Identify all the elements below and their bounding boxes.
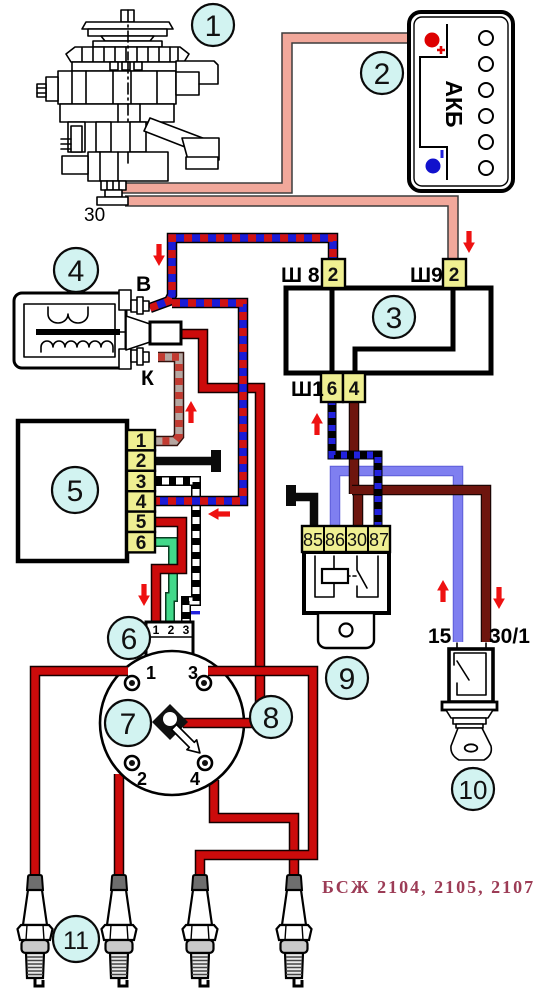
svg-text:11: 11 <box>63 927 89 955</box>
battery cell plugs <box>479 31 493 175</box>
flow arrow up below Sh1-6 <box>311 413 323 435</box>
label circle 8 <box>250 696 292 738</box>
svg-text:1: 1 <box>136 431 147 452</box>
wire blue-red: coil B to Sh8-2 <box>150 238 333 308</box>
svg-text:БСЖ 2104, 2105, 2107: БСЖ 2104, 2105, 2107 <box>322 877 535 897</box>
relay (item 9) <box>302 526 390 648</box>
flow arrow down at Sh9 pink <box>463 231 475 253</box>
wire red: commutator pin5 to connector pin1 <box>155 522 182 623</box>
label circle 1 <box>192 4 234 46</box>
svg-text:10: 10 <box>459 775 488 805</box>
ignition coil (item 4) <box>14 273 181 390</box>
wire brown: junction to ignition switch 30/1 <box>352 490 486 642</box>
svg-text:30: 30 <box>84 205 105 226</box>
svg-text:4: 4 <box>349 379 360 400</box>
wire red: distributor t3 to spark plug 3 <box>200 671 313 880</box>
svg-text:К: К <box>141 367 154 390</box>
wire red: distributor t4 to spark plug 4 <box>214 780 294 880</box>
commutator pins 1-6 <box>127 430 155 552</box>
wire black: commutator pin2 to body lug <box>155 457 212 466</box>
svg-text:8: 8 <box>263 702 280 735</box>
svg-text:Ш1: Ш1 <box>291 378 324 401</box>
svg-text:2: 2 <box>328 265 339 286</box>
svg-text:4: 4 <box>68 255 85 288</box>
svg-text:3: 3 <box>188 663 198 683</box>
distributor t3 <box>197 676 211 690</box>
svg-text:Ш 8: Ш 8 <box>281 264 320 287</box>
wire brown-grey: coil K to commutator pin1 <box>155 357 179 441</box>
generator legs <box>68 122 85 152</box>
flow arrow down at blue-red top <box>153 244 165 266</box>
svg-text:5: 5 <box>136 512 147 533</box>
generator right bracket <box>176 61 218 95</box>
svg-text:АКБ: АКБ <box>441 80 467 127</box>
distributor (item 7) <box>35 651 313 880</box>
generator diagonal brace and foot <box>144 118 208 154</box>
wire blue-red: coil B to commutator pin4 <box>155 303 243 501</box>
block internal link Sh9-2 to Sh1-4 <box>355 288 453 373</box>
coil terminal K <box>119 349 131 369</box>
svg-text:30/1: 30/1 <box>489 625 530 648</box>
wire black: relay 85 to ground lug <box>294 497 314 526</box>
block internal link Sh8-2 to Sh1-6 <box>330 288 335 373</box>
svg-text:1: 1 <box>146 663 156 683</box>
relay coil box <box>322 569 348 583</box>
distributor t4 <box>198 756 212 770</box>
svg-text:2: 2 <box>136 451 147 472</box>
svg-text:4: 4 <box>190 769 200 789</box>
flow arrow down near connector <box>138 584 150 606</box>
generator G (item 1) <box>37 10 219 205</box>
spark plug 1 <box>18 875 53 986</box>
svg-text:30: 30 <box>347 530 367 550</box>
label circle 3 <box>373 296 415 338</box>
svg-text:1: 1 <box>153 623 160 637</box>
label circle 10 <box>452 768 494 810</box>
svg-text:5: 5 <box>67 475 84 508</box>
pin Sh8-2 <box>322 259 345 288</box>
spark plugs (item 11) <box>18 875 312 986</box>
wire brown: Sh1-4 down to junction <box>349 402 360 494</box>
svg-text:6: 6 <box>327 379 338 400</box>
spark plug 2 <box>102 875 137 986</box>
wire pink: generator 30 to battery + <box>122 38 424 188</box>
svg-text:6: 6 <box>136 533 147 554</box>
switch key bow <box>451 728 491 760</box>
wire brown: junction to relay 30 <box>353 486 364 526</box>
label circle 4 <box>54 248 98 292</box>
battery + terminal <box>425 33 440 48</box>
svg-text:В: В <box>136 273 151 296</box>
svg-text:15: 15 <box>428 625 452 648</box>
ignition switch (item 10) <box>428 625 530 760</box>
svg-text:6: 6 <box>121 623 138 656</box>
distributor t2 <box>125 756 139 770</box>
coil terminal B <box>119 290 131 310</box>
pin Sh1-4 <box>343 373 365 402</box>
label circle 7 <box>105 700 151 746</box>
spark plug 3 <box>183 875 218 986</box>
pin Sh9-2 <box>443 259 466 288</box>
minus mark <box>191 611 200 614</box>
wire red: distributor t1 to spark plug 1 <box>35 671 128 880</box>
wire periwinkle: relay 86 to ignition switch 15 <box>335 471 458 642</box>
flow arrow left on pin4 wire <box>208 508 230 520</box>
distributor rotor <box>152 704 188 740</box>
wire red: distributor centre lead to rotor (item 8) <box>183 718 268 729</box>
generator output terminal 30 <box>101 181 126 190</box>
wire green: commutator pin6 to connector pin2 <box>155 542 173 623</box>
flow arrow up near switch 15 <box>437 580 449 602</box>
label circle 9 <box>326 657 368 699</box>
svg-text:86: 86 <box>325 530 345 550</box>
svg-text:3: 3 <box>386 302 403 335</box>
label circle 6 <box>108 617 150 659</box>
coil core <box>36 329 120 335</box>
wire pink: generator 30 to fuse block Sh9-2 <box>125 201 453 260</box>
svg-text:1: 1 <box>205 10 222 43</box>
svg-text:Ш9: Ш9 <box>410 264 443 287</box>
flow arrow up near coil K wire <box>185 401 197 423</box>
relay pins 85 86 30 87 <box>302 526 390 552</box>
svg-text:85: 85 <box>303 530 323 550</box>
label circle 5 <box>52 467 98 513</box>
coil HV tower <box>126 316 150 350</box>
battery - terminal <box>426 159 441 174</box>
mounting block (item 3) <box>281 259 491 402</box>
battery GB (item 2, АКБ) <box>409 12 513 191</box>
svg-text:9: 9 <box>339 663 356 696</box>
pin Sh1-6 <box>321 373 343 402</box>
wire white-black: commutator pin3 to connector pin3 <box>155 481 196 623</box>
svg-text:2: 2 <box>374 58 391 91</box>
svg-text:7: 7 <box>120 708 137 741</box>
coil primary winding <box>48 307 88 323</box>
label circle 2 <box>361 52 403 94</box>
wire red HV: coil tower to distributor centre <box>181 334 260 705</box>
relay mounting tab <box>318 613 374 648</box>
commutator unit (item 5) <box>18 421 155 561</box>
distributor t1 <box>125 676 139 690</box>
spark plug 4 <box>277 875 312 986</box>
svg-text:4: 4 <box>136 492 147 513</box>
svg-text:2: 2 <box>137 769 147 789</box>
svg-text:87: 87 <box>369 530 389 550</box>
wire red: distributor t2 to spark plug 2 <box>114 774 125 880</box>
svg-text:2: 2 <box>168 623 175 637</box>
connector (item 6) <box>146 611 200 656</box>
coil secondary winding <box>41 341 113 352</box>
svg-text:2: 2 <box>449 265 460 286</box>
flow arrow down near switch 30/1 <box>493 587 505 609</box>
svg-text:3: 3 <box>136 472 147 493</box>
svg-text:3: 3 <box>183 623 190 637</box>
label circle 11 <box>53 916 99 962</box>
wire black-blue: Sh1-6 to relay 87 <box>332 402 378 526</box>
